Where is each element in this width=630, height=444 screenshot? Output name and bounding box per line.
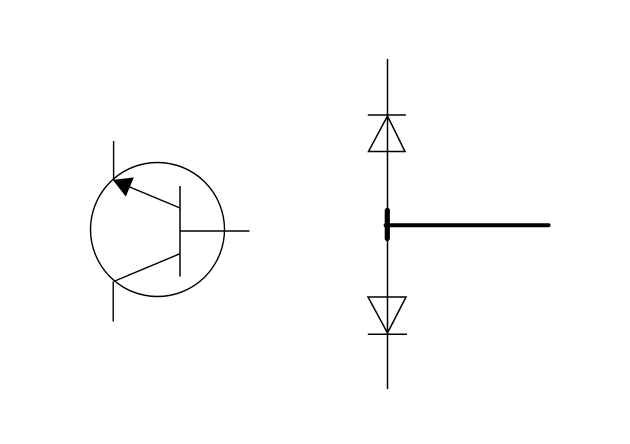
wire vertical net (387, 59, 389, 389)
wire collector lead (112, 281, 114, 321)
transistor Q1 emitter line (114, 180, 180, 208)
diode D2 (368, 297, 407, 334)
transistor Q1 emitter arrow (114, 178, 133, 196)
junction bar (385, 210, 390, 238)
transistor Q1 collector line (114, 254, 180, 282)
diode D1 (368, 115, 406, 152)
transistor Q1 base bar (179, 186, 181, 277)
wire emitter lead (113, 141, 115, 181)
wire base lead (180, 230, 250, 232)
transistor Q1 body circle (91, 163, 225, 297)
wire thick tap (386, 223, 549, 227)
